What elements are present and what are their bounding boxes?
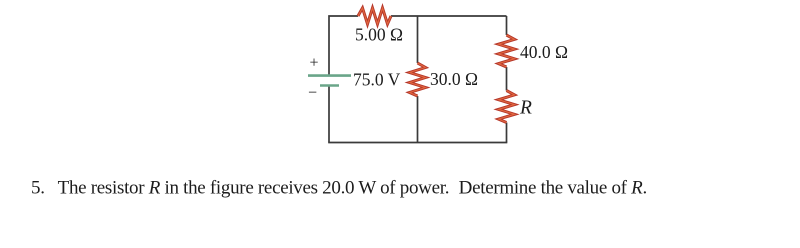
svg-text:40.0 Ω: 40.0 Ω bbox=[520, 42, 568, 62]
resistor R1 5.00 ohm (top) bbox=[358, 8, 391, 24]
wire: middle branch lower stub bbox=[417, 96, 419, 143]
wire: top segment R1 to top-right corner bbox=[391, 15, 507, 17]
battery V1 75.0 V : long plate (+) bbox=[308, 74, 351, 77]
resistor R4 R (right bottom) bbox=[499, 91, 515, 123]
wire: bottom rail bbox=[328, 142, 507, 144]
resistor R3 40.0 ohm (right top) bbox=[499, 35, 515, 67]
svg-text:75.0 V: 75.0 V bbox=[353, 70, 401, 90]
wire: middle branch upper stub bbox=[417, 16, 419, 64]
svg-text:5.The resistor R in the figure: 5.The resistor R in the figure receives … bbox=[31, 178, 647, 199]
wire: left branch (bottom-left corner up through battery gap to top-left corner, then right to R1) bbox=[329, 16, 358, 143]
svg-text:−: − bbox=[308, 84, 317, 101]
svg-text:5.00 Ω: 5.00 Ω bbox=[355, 25, 403, 45]
svg-text:R: R bbox=[519, 98, 532, 119]
battery V1 : short plate (-) bbox=[320, 84, 339, 87]
wire: right branch segments (top-right corner to R3, R3 to R4, R4 to bottom-right corner) bbox=[506, 16, 508, 143]
resistor R2 30.0 ohm (middle branch) bbox=[410, 63, 426, 96]
svg-text:30.0 Ω: 30.0 Ω bbox=[430, 69, 478, 89]
svg-text:+: + bbox=[310, 54, 319, 71]
